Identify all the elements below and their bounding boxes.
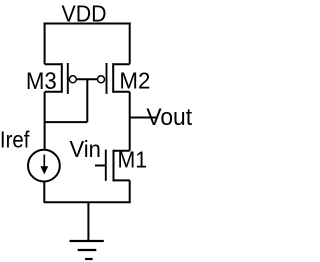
svg-text:M1: M1 — [118, 147, 148, 173]
current source Iref arrowhead — [40, 166, 48, 174]
ground stub wire — [87, 202, 89, 241]
ground bar 3 — [85, 258, 93, 260]
transistor M2 drain lead (bottom) — [113, 91, 130, 93]
transistor M2 gate bar — [106, 63, 108, 94]
transistor M3 drain lead (bottom) — [45, 91, 62, 93]
wire gate M3 to gate M2 — [77, 78, 98, 80]
ground bar 2 — [78, 249, 97, 251]
wire Vout tap — [130, 117, 156, 119]
transistor M2 gate bubble (PMOS) — [98, 76, 105, 83]
svg-text:Iref: Iref — [0, 127, 30, 153]
transistor M1 drain lead (top) — [114, 150, 130, 152]
wire M1 source down to rail — [129, 180, 131, 202]
svg-text:Vout: Vout — [146, 104, 192, 131]
transistor M3 channel bar — [61, 63, 63, 93]
wire left column from VDD to M3 source — [44, 23, 46, 65]
current source Iref arrow shaft — [43, 155, 45, 170]
wire bottom rail — [44, 201, 131, 203]
svg-text:M3: M3 — [26, 68, 57, 95]
wire right column from VDD to M2 source — [129, 23, 131, 65]
transistor M3 gate bar — [67, 63, 69, 94]
wire gate junction vertical (diode connection) — [86, 79, 88, 122]
wire gate junction horizontal to M3 drain — [45, 121, 88, 123]
transistor M1 channel bar — [113, 150, 115, 182]
wire M2 drain to M1 drain (Vout node) — [129, 92, 131, 151]
transistor M2 channel bar — [112, 63, 114, 93]
transistor M3 gate bubble (PMOS) — [69, 76, 76, 83]
transistor M1 gate stub (Vin) — [95, 165, 106, 167]
svg-text:M2: M2 — [119, 67, 150, 93]
wire M3 drain down to Iref — [44, 92, 46, 150]
wire Iref bottom to ground rail — [43, 182, 45, 203]
transistor M3 source lead (top) — [45, 63, 62, 65]
transistor M2 source lead (top) — [113, 63, 130, 65]
ground bar 1 — [70, 240, 104, 242]
wire VDD rail — [44, 23, 131, 25]
transistor M1 source lead (bottom) — [114, 179, 130, 181]
svg-text:VDD: VDD — [62, 0, 107, 26]
transistor M1 gate bar — [105, 150, 107, 181]
svg-text:Vin: Vin — [70, 136, 101, 162]
current source Iref circle — [28, 150, 60, 182]
